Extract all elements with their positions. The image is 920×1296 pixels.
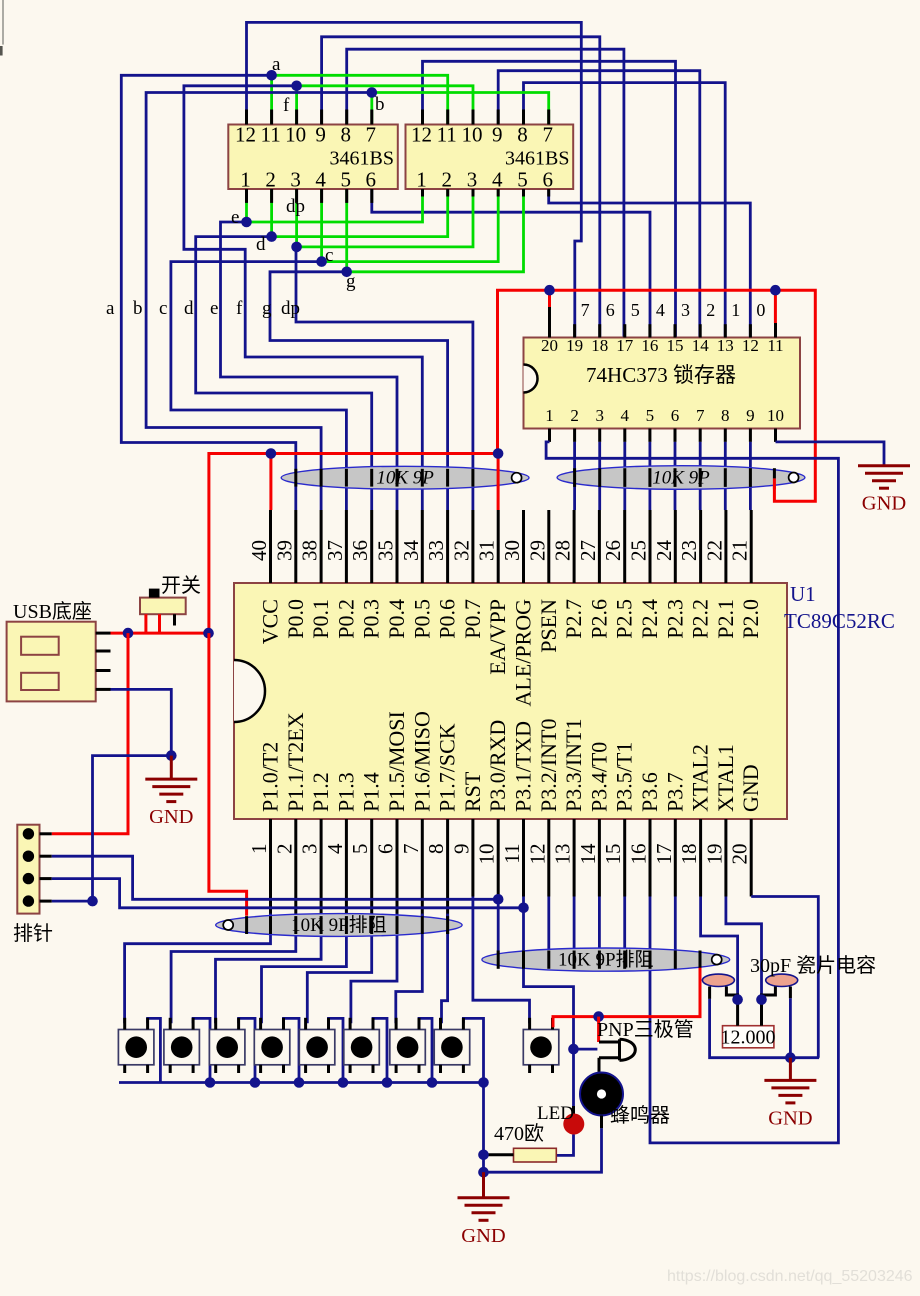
d2 top pin stub 11 bbox=[446, 110, 449, 125]
wire d2 pin12 to U2 pin15 (digit 3) bbox=[423, 61, 676, 337]
mcu top pin stub 28 bbox=[573, 510, 576, 583]
svg-text:14: 14 bbox=[576, 843, 600, 865]
svg-text:EA/VPP: EA/VPP bbox=[485, 599, 510, 675]
mcu bottom pin stub 18 bbox=[699, 819, 702, 897]
svg-text:P2.3: P2.3 bbox=[662, 599, 687, 639]
svg-text:RST: RST bbox=[460, 771, 485, 812]
cap C2 right leg bbox=[789, 987, 792, 999]
ground GND below buttons bbox=[458, 1198, 510, 1247]
svg-text:9: 9 bbox=[746, 406, 755, 425]
mcu bottom pin stub 7 bbox=[421, 819, 424, 934]
bus junction bbox=[250, 1077, 261, 1088]
svg-text:b: b bbox=[133, 298, 143, 319]
svg-text:c: c bbox=[159, 298, 167, 319]
svg-text:P0.2: P0.2 bbox=[333, 599, 358, 639]
mcu top pin stub 40 bbox=[269, 510, 272, 583]
latch top pin stub 12 bbox=[749, 324, 752, 337]
d1 top pin stub 10 bbox=[295, 110, 298, 125]
mcu bottom pin stub 13 bbox=[573, 819, 576, 897]
svg-text:XTAL2: XTAL2 bbox=[688, 744, 713, 812]
net b wire to P0.1 bbox=[146, 93, 372, 511]
latch top pin stub 13 bbox=[724, 324, 727, 337]
latch pin9 wire to P2 bbox=[749, 442, 752, 510]
latch top pin stub 19 bbox=[573, 324, 576, 337]
wire P3.0 into RN4 bbox=[497, 897, 500, 966]
mcu bottom pin stub 1 bbox=[269, 819, 272, 934]
mcu bottom pin stub 16 bbox=[649, 819, 652, 897]
svg-text:P3.5/T1: P3.5/T1 bbox=[612, 742, 637, 812]
svg-text:1: 1 bbox=[545, 406, 554, 425]
cap C1 left leg bbox=[708, 987, 711, 999]
pnp transistor Q1 bbox=[599, 1039, 635, 1060]
svg-text:5: 5 bbox=[631, 300, 640, 320]
ground GND below USB bbox=[145, 779, 197, 828]
button 1 gnd hook bbox=[148, 1018, 161, 1082]
wire mcu GND pin20 bbox=[751, 897, 818, 1058]
mcu bottom pin stub 4 bbox=[345, 819, 348, 934]
buzzer bottom lead bbox=[600, 1116, 603, 1129]
svg-text:VCC: VCC bbox=[258, 599, 283, 644]
svg-text:2: 2 bbox=[441, 168, 452, 192]
wire d1 pin8 to U2 pin17 (digit 5) bbox=[347, 49, 624, 337]
d1 bottom pin stub 1 bbox=[245, 189, 248, 203]
bus junction bbox=[338, 1077, 349, 1088]
button 5 gnd hook bbox=[329, 1018, 344, 1082]
latch pin7 wire to P2 bbox=[699, 442, 702, 510]
latch bottom pin stub 2 bbox=[573, 429, 576, 442]
bus junction bbox=[427, 1077, 438, 1088]
mcu bottom pin stub 12 bbox=[547, 819, 550, 897]
node a bbox=[266, 70, 277, 81]
net f wire to P0.5 bbox=[184, 86, 422, 510]
junction txd bbox=[518, 903, 529, 914]
led bottom lead bbox=[556, 1135, 573, 1156]
d2 bottom pin stub 2 bbox=[446, 189, 449, 197]
svg-text:3: 3 bbox=[467, 168, 478, 192]
mcu top pin stub 25 bbox=[649, 510, 652, 583]
switch actuator bbox=[149, 589, 160, 598]
wire P1.1 to button 2 bbox=[171, 914, 296, 1024]
svg-text:8: 8 bbox=[340, 123, 351, 147]
svg-text:e: e bbox=[210, 298, 218, 319]
svg-text:8: 8 bbox=[517, 123, 528, 147]
svg-text:P3.0/RXD: P3.0/RXD bbox=[485, 720, 510, 812]
wire base node to LED bbox=[572, 1049, 575, 1106]
svg-text:19: 19 bbox=[566, 336, 583, 355]
vcc rail reset/pnp bbox=[553, 968, 700, 1028]
svg-text:3: 3 bbox=[298, 844, 322, 855]
net d wire to P0.3 bbox=[196, 237, 372, 510]
svg-text:P1.2: P1.2 bbox=[308, 772, 333, 812]
ground GND below crystal bbox=[764, 1080, 816, 1129]
svg-text:7: 7 bbox=[581, 300, 590, 320]
svg-text:20: 20 bbox=[728, 844, 752, 865]
svg-text:11: 11 bbox=[767, 336, 783, 355]
svg-text:7: 7 bbox=[696, 406, 705, 425]
mcu top pin stub 26 bbox=[623, 510, 626, 583]
button 8 gnd hook bbox=[463, 1018, 483, 1082]
net g green link bbox=[347, 189, 524, 272]
net dp green link bbox=[297, 189, 473, 247]
svg-text:4: 4 bbox=[621, 406, 630, 425]
svg-text:f: f bbox=[236, 298, 243, 319]
usb pin stub y670 bbox=[96, 669, 111, 672]
mcu top pin stub 30 bbox=[522, 510, 525, 583]
wire P1.2 to button 3 bbox=[216, 914, 322, 1024]
latch bottom pin stub 4 bbox=[623, 429, 626, 442]
svg-text:10K 9P: 10K 9P bbox=[652, 468, 710, 489]
net a wire to P0.0 bbox=[121, 75, 295, 510]
svg-text:GND: GND bbox=[149, 806, 193, 828]
latch pin11 vcc stub red bbox=[774, 290, 777, 323]
usb pin stub y651 bbox=[96, 650, 111, 653]
net f green link bbox=[297, 86, 473, 125]
latch notch bbox=[524, 365, 538, 393]
latch top pin stub 20 bbox=[548, 307, 551, 338]
mcu top pin stub 34 bbox=[421, 510, 424, 583]
display U4 3461BS box bbox=[406, 125, 574, 190]
svg-text:18: 18 bbox=[677, 844, 701, 865]
latch pin2 wire to P2 bbox=[573, 442, 576, 510]
svg-text:LED: LED bbox=[537, 1103, 574, 1124]
wire P3.1 to PNP base bbox=[524, 897, 574, 1050]
svg-text:3461BS: 3461BS bbox=[505, 148, 569, 170]
svg-text:P0.7: P0.7 bbox=[460, 599, 485, 639]
svg-text:3461BS: 3461BS bbox=[330, 148, 394, 170]
node g bbox=[341, 267, 352, 278]
latch top pin stub 16 bbox=[648, 324, 651, 337]
d2 top pin stub 8 bbox=[522, 110, 525, 125]
header pin 1 bbox=[23, 828, 34, 839]
svg-text:0: 0 bbox=[756, 300, 765, 320]
svg-text:P2.2: P2.2 bbox=[688, 599, 713, 639]
svg-text:10: 10 bbox=[767, 406, 784, 425]
display U3 3461BS box bbox=[228, 125, 397, 190]
d2 bottom pin stub 4 bbox=[497, 189, 500, 197]
wire P3.5 into RN4 bbox=[623, 897, 626, 966]
svg-text:P0.0: P0.0 bbox=[283, 599, 308, 639]
wire P1.3 to button 4 bbox=[262, 914, 347, 1024]
button gnd bus bbox=[119, 1081, 484, 1084]
node dp bbox=[291, 242, 302, 253]
svg-text:P1.6/MISO: P1.6/MISO bbox=[409, 711, 434, 812]
header pin 3 bbox=[23, 873, 34, 884]
latch pin1 control wire to P3.6 bbox=[546, 442, 838, 1143]
svg-text:d: d bbox=[184, 298, 194, 319]
svg-text:34: 34 bbox=[399, 540, 423, 562]
svg-text:P1.1/T2EX: P1.1/T2EX bbox=[283, 712, 308, 812]
svg-text:74HC373 锁存器: 74HC373 锁存器 bbox=[586, 363, 736, 387]
svg-text:28: 28 bbox=[551, 540, 575, 561]
pnp collector wire bbox=[598, 1058, 601, 1072]
svg-text:9: 9 bbox=[449, 844, 473, 855]
svg-text:g: g bbox=[346, 271, 356, 292]
d2 bottom pin stub 5 bbox=[522, 189, 525, 197]
mcu top pin stub 24 bbox=[674, 510, 677, 583]
net e wire to P0.4 bbox=[221, 222, 398, 510]
mcu top pin stub 27 bbox=[598, 510, 601, 583]
svg-text:P2.5: P2.5 bbox=[612, 599, 637, 639]
mcu top pin stub 33 bbox=[446, 510, 449, 583]
svg-text:e: e bbox=[231, 207, 239, 228]
wire d1 pin6 to U2 pin16 (digit 4) bbox=[372, 189, 650, 338]
svg-text:https://blog.csdn.net/qq_55203: https://blog.csdn.net/qq_55203246 bbox=[667, 1268, 913, 1285]
svg-text:b: b bbox=[375, 94, 385, 115]
svg-text:GND: GND bbox=[738, 764, 763, 812]
bus junction bbox=[382, 1077, 393, 1088]
net e green link bbox=[247, 189, 423, 222]
latch pin6 wire to P2 bbox=[674, 442, 677, 510]
node b bbox=[367, 87, 378, 98]
push button S5 bbox=[299, 1018, 335, 1073]
svg-text:P2.0: P2.0 bbox=[738, 599, 763, 639]
bus junction bbox=[478, 1077, 489, 1088]
push button S1 bbox=[118, 1018, 153, 1073]
latch pin3 wire to P2 bbox=[598, 442, 601, 510]
vcc rail around latch bbox=[498, 290, 816, 501]
junction vcc ea/vpp bbox=[493, 448, 504, 459]
mcu top pin stub 35 bbox=[396, 510, 399, 583]
svg-text:P3.6: P3.6 bbox=[637, 772, 662, 812]
svg-text:4: 4 bbox=[492, 168, 503, 192]
mcu bottom pin stub 19 bbox=[724, 819, 727, 897]
svg-text:2: 2 bbox=[706, 300, 715, 320]
d1 bottom pin stub 3 bbox=[295, 189, 298, 203]
gnd branch to header pin4 bbox=[52, 756, 172, 902]
svg-text:40: 40 bbox=[247, 540, 271, 561]
svg-text:P0.6: P0.6 bbox=[435, 599, 460, 639]
d1 top pin stub 9 bbox=[320, 110, 323, 125]
svg-text:10K 9P排阻: 10K 9P排阻 bbox=[291, 914, 387, 936]
mcu top pin stub 39 bbox=[294, 510, 297, 583]
svg-text:a: a bbox=[106, 298, 115, 319]
svg-text:5: 5 bbox=[348, 844, 372, 855]
gnd stem usb bbox=[170, 756, 173, 780]
resistor network RN1 bbox=[281, 466, 529, 489]
svg-text:P2.7: P2.7 bbox=[561, 599, 586, 639]
svg-text:25: 25 bbox=[627, 540, 651, 561]
latch bottom pin stub 6 bbox=[674, 429, 677, 442]
svg-text:19: 19 bbox=[702, 844, 726, 865]
svg-text:37: 37 bbox=[323, 540, 347, 561]
header pin3 wire to TXD bbox=[52, 879, 524, 908]
junction crystal right bbox=[756, 994, 767, 1005]
mcu bottom pin stub 2 bbox=[294, 819, 297, 934]
mcu top pin stub 38 bbox=[320, 510, 323, 583]
junction vcc usb bbox=[123, 628, 134, 639]
junction crystal left bbox=[732, 994, 743, 1005]
svg-text:11: 11 bbox=[437, 123, 457, 147]
d1 bottom pin stub 2 bbox=[270, 189, 273, 203]
svg-text:10K 9P: 10K 9P bbox=[376, 468, 434, 489]
svg-text:23: 23 bbox=[677, 540, 701, 561]
d2 bottom pin stub 6 bbox=[547, 189, 550, 197]
latch bottom pin stub 10 bbox=[774, 429, 777, 442]
svg-text:P3.4/T0: P3.4/T0 bbox=[586, 742, 611, 812]
junction vcc pin11 bbox=[770, 285, 781, 296]
mcu top pin stub 32 bbox=[471, 510, 474, 583]
mcu bottom pin stub 17 bbox=[674, 819, 677, 897]
cap gnd bus bbox=[710, 999, 820, 1058]
svg-text:PNP三极管: PNP三极管 bbox=[597, 1018, 694, 1041]
usb inner pad 1 bbox=[21, 637, 59, 655]
svg-text:11: 11 bbox=[500, 844, 524, 864]
svg-text:10: 10 bbox=[462, 123, 483, 147]
pnp base wire bbox=[574, 1048, 598, 1051]
switch leg3 stub bbox=[173, 614, 176, 625]
ground GND near latch bbox=[858, 466, 910, 515]
gnd stem buttons bbox=[482, 1172, 485, 1198]
svg-text:XTAL1: XTAL1 bbox=[713, 744, 738, 812]
svg-text:13: 13 bbox=[717, 336, 734, 355]
wire d2 pin8 to U2 pin13 (digit 1) bbox=[524, 83, 726, 338]
usb pin stub y689 bbox=[96, 688, 111, 691]
svg-text:USB底座: USB底座 bbox=[13, 600, 92, 623]
usb inner pad 2 bbox=[21, 673, 59, 690]
push button S6 bbox=[344, 1018, 380, 1073]
svg-text:TC89C52RC: TC89C52RC bbox=[784, 609, 895, 633]
svg-text:24: 24 bbox=[652, 540, 676, 562]
latch U2 74HC373 box bbox=[524, 338, 801, 429]
mcu top pin stub 21 bbox=[750, 510, 753, 583]
svg-text:17: 17 bbox=[616, 336, 634, 355]
svg-text:12: 12 bbox=[742, 336, 759, 355]
wire P1.7 to button 8 bbox=[442, 914, 448, 1024]
svg-text:1: 1 bbox=[240, 168, 251, 192]
svg-text:PSEN: PSEN bbox=[536, 599, 561, 653]
net c green link bbox=[322, 189, 499, 262]
latch bottom pin stub 9 bbox=[749, 429, 752, 442]
svg-text:15: 15 bbox=[601, 844, 625, 865]
mcu bottom pin stub 14 bbox=[598, 819, 601, 897]
cap C2 30pF bbox=[766, 974, 798, 986]
cap C1 right leg bbox=[726, 987, 737, 1000]
vcc drop to MCU pin40 bbox=[269, 454, 272, 511]
crystal left pin bbox=[736, 1000, 739, 1026]
wire P1.6 to button 7 bbox=[396, 914, 423, 1024]
d1 top pin stub 7 bbox=[370, 110, 373, 125]
header pin4 gnd junction bbox=[87, 896, 98, 907]
wire P3.4 into RN4 bbox=[598, 897, 601, 966]
mcu U1 STC89C52RC box bbox=[234, 583, 787, 819]
svg-text:4: 4 bbox=[323, 843, 347, 854]
latch pin4 wire to P2 bbox=[623, 442, 626, 510]
page margin mark bbox=[2, 0, 4, 45]
svg-text:11: 11 bbox=[260, 123, 280, 147]
wire d2 pin9 to U2 pin14 (digit 2) bbox=[498, 71, 700, 338]
svg-text:8: 8 bbox=[424, 844, 448, 855]
button 6 gnd hook bbox=[373, 1018, 387, 1082]
latch pin8 wire to P2 bbox=[724, 442, 727, 510]
svg-text:38: 38 bbox=[298, 540, 322, 561]
svg-text:蜂鸣器: 蜂鸣器 bbox=[610, 1104, 670, 1127]
svg-text:18: 18 bbox=[591, 336, 608, 355]
mcu top pin stub 29 bbox=[547, 510, 550, 583]
mcu top pin stub 36 bbox=[370, 510, 373, 583]
latch pin20 vcc stub red bbox=[548, 290, 551, 307]
svg-text:470欧: 470欧 bbox=[494, 1122, 544, 1145]
svg-text:9: 9 bbox=[492, 123, 503, 147]
d1 bottom pin stub 5 bbox=[345, 189, 348, 203]
vcc wire usb to switch rail bbox=[111, 632, 209, 635]
svg-text:2: 2 bbox=[570, 406, 579, 425]
junction usb gnd bbox=[166, 750, 177, 761]
vcc drop to header pin1 bbox=[52, 633, 128, 834]
d1 top pin stub 11 bbox=[270, 110, 273, 125]
gnd drop below buttons blue bbox=[482, 1083, 485, 1173]
latch bottom pin stub 5 bbox=[648, 429, 651, 442]
svg-text:26: 26 bbox=[601, 540, 625, 561]
wire d1 pin12 to U2 pin19 (digit 7) bbox=[247, 22, 582, 337]
svg-text:32: 32 bbox=[449, 540, 473, 561]
svg-text:33: 33 bbox=[424, 540, 448, 561]
svg-text:13: 13 bbox=[551, 844, 575, 865]
latch top pin stub 11 bbox=[774, 323, 777, 338]
svg-text:c: c bbox=[325, 245, 333, 266]
svg-text:a: a bbox=[272, 54, 281, 75]
svg-text:31: 31 bbox=[475, 540, 499, 561]
net d green link bbox=[272, 189, 448, 237]
svg-text:6: 6 bbox=[671, 406, 680, 425]
junction vcc switch bbox=[203, 628, 214, 639]
svg-text:P0.3: P0.3 bbox=[359, 599, 384, 639]
resistor network RN4 bbox=[482, 948, 730, 971]
cap C1 30pF bbox=[702, 974, 734, 986]
mcu top pin stub 37 bbox=[345, 510, 348, 583]
latch top pin stub 18 bbox=[598, 324, 601, 337]
wire P1.0 to button 1 bbox=[125, 914, 271, 1024]
vcc rail above MCU bbox=[209, 454, 498, 634]
svg-text:2: 2 bbox=[265, 168, 276, 192]
svg-text:P0.1: P0.1 bbox=[308, 599, 333, 639]
svg-text:P3.2/INT0: P3.2/INT0 bbox=[536, 719, 561, 813]
svg-text:1: 1 bbox=[247, 844, 271, 855]
net g wire to P0.6 bbox=[270, 272, 448, 510]
node c bbox=[316, 256, 327, 267]
svg-text:7: 7 bbox=[366, 123, 377, 147]
svg-text:21: 21 bbox=[728, 540, 752, 561]
resistor network RN2 bbox=[557, 466, 805, 490]
svg-text:20: 20 bbox=[541, 336, 558, 355]
button 2 gnd hook bbox=[193, 1018, 210, 1082]
push button S8 bbox=[434, 1018, 470, 1073]
svg-text:P3.3/INT1: P3.3/INT1 bbox=[561, 719, 586, 813]
mcu top pin stub 23 bbox=[699, 510, 702, 583]
mcu top pin stub 31 bbox=[497, 510, 500, 583]
svg-text:6: 6 bbox=[542, 168, 553, 192]
svg-text:g: g bbox=[262, 298, 272, 319]
svg-text:6: 6 bbox=[366, 168, 377, 192]
svg-text:5: 5 bbox=[646, 406, 655, 425]
svg-text:7: 7 bbox=[399, 844, 423, 855]
switch box bbox=[140, 598, 186, 615]
junction buzzer gnd bbox=[478, 1167, 489, 1178]
latch bottom pin stub 1 bbox=[548, 429, 551, 442]
svg-text:P0.5: P0.5 bbox=[409, 599, 434, 639]
svg-text:17: 17 bbox=[652, 844, 676, 865]
push button S4 bbox=[254, 1018, 289, 1073]
mcu top pin stub 22 bbox=[724, 510, 727, 583]
led D1 bbox=[563, 1114, 584, 1135]
svg-text:ALE/PROG: ALE/PROG bbox=[511, 599, 536, 707]
mcu bottom pin stub 8 bbox=[446, 819, 449, 934]
svg-text:排针: 排针 bbox=[13, 922, 53, 945]
svg-text:P2.1: P2.1 bbox=[713, 599, 738, 639]
svg-text:27: 27 bbox=[576, 540, 600, 561]
svg-text:GND: GND bbox=[862, 493, 906, 515]
svg-text:d: d bbox=[256, 234, 266, 255]
header pin 3 stub bbox=[40, 877, 52, 880]
